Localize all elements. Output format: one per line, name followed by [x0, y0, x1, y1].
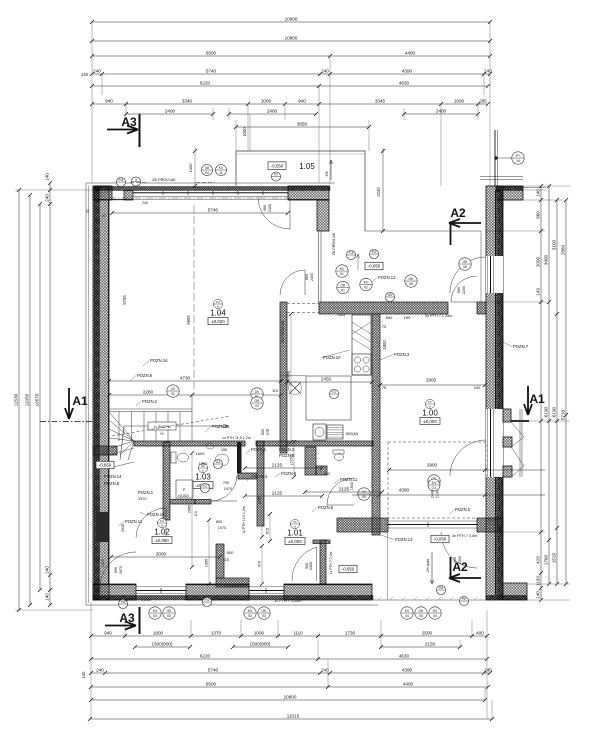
svg-text:POZN.16: POZN.16 [147, 512, 165, 517]
tag circle [459, 258, 471, 270]
section marker A1 right [511, 386, 545, 421]
door arc 1.01 to 1.00 [292, 547, 317, 581]
dim right col1 [536, 184, 543, 602]
svg-text:2500: 2500 [422, 630, 433, 635]
door arc 1.01 entry [327, 478, 354, 505]
dim left inner [45, 173, 52, 607]
svg-text:800: 800 [261, 429, 265, 435]
svg-text:POZN.15: POZN.15 [212, 424, 230, 429]
svg-text:P7: P7 [516, 154, 520, 158]
tag circle [200, 483, 209, 492]
svg-text:4630: 4630 [399, 653, 410, 658]
section marker A2 bottom [449, 557, 481, 582]
svg-text:5740: 5740 [208, 207, 219, 212]
svg-text:03: 03 [262, 614, 266, 618]
svg-text:615: 615 [265, 528, 269, 534]
svg-text:10900: 10900 [285, 16, 298, 21]
tag circle [329, 389, 338, 398]
terrace west edge [387, 532, 389, 600]
svg-text:140: 140 [45, 173, 50, 181]
dim 10800 top [90, 35, 492, 43]
door arc bathroom [211, 475, 237, 501]
svg-text:POZN.1: POZN.1 [138, 490, 154, 495]
hall line y376 [280, 375, 306, 377]
tag circle [336, 265, 348, 277]
svg-text:01: 01 [171, 392, 175, 396]
tag circle [118, 599, 127, 608]
staircase walk line with arrow [120, 424, 228, 460]
svg-text:700: 700 [223, 481, 229, 485]
svg-text:1000: 1000 [261, 98, 272, 103]
porch slope arrow [330, 160, 333, 180]
svg-text:2085: 2085 [187, 505, 191, 513]
svg-text:2125: 2125 [339, 486, 350, 491]
toilet [178, 453, 189, 462]
living south wall west seg [337, 518, 388, 532]
svg-text:05: 05 [409, 282, 413, 286]
svg-text:2240: 2240 [376, 187, 381, 197]
svg-text:P3: P3 [372, 250, 376, 254]
svg-text:75: 75 [382, 325, 386, 329]
svg-text:1730: 1730 [345, 630, 356, 635]
dimension line [379, 641, 462, 649]
window bottom wall middle [249, 590, 284, 592]
roof edge line 1 [480, 176, 523, 178]
svg-text:2300: 2300 [458, 556, 462, 564]
svg-text:1800: 1800 [382, 340, 387, 350]
svg-text:1370: 1370 [211, 630, 222, 635]
svg-text:POZN.8: POZN.8 [104, 481, 120, 486]
svg-text:2280: 2280 [143, 389, 154, 394]
tag circle [385, 292, 394, 301]
svg-text:F2: F2 [332, 390, 336, 394]
svg-text:2125: 2125 [272, 462, 283, 467]
downpipe line and dot [494, 130, 496, 186]
svg-text:3x PTH 7 1,25m: 3x PTH 7 1,25m [274, 599, 301, 603]
exterior wall bottom seg2 [186, 584, 249, 600]
svg-text:1970: 1970 [224, 487, 232, 491]
svg-text:115: 115 [194, 511, 198, 517]
svg-text:2300: 2300 [310, 273, 314, 281]
dim 5740/4390 top [90, 68, 492, 76]
svg-text:02: 02 [364, 286, 368, 290]
dim 6500/4400 top [90, 50, 492, 58]
dim 10900 top [90, 16, 492, 24]
dim 3650 [234, 121, 371, 129]
window bottom wall left [136, 590, 186, 592]
washing machine [313, 424, 326, 440]
svg-text:OK: OK [341, 283, 347, 287]
svg-text:03: 03 [153, 614, 157, 618]
svg-text:1085: 1085 [204, 559, 208, 567]
svg-text:11015: 11015 [287, 713, 300, 718]
pantry box [306, 376, 351, 420]
dim 2280 stairs [107, 389, 283, 397]
level box [365, 262, 383, 270]
thin line east of stub [523, 187, 546, 189]
dim right col4 [561, 198, 568, 586]
svg-text:400: 400 [476, 630, 484, 635]
svg-text:240: 240 [484, 667, 492, 672]
section marker A1 left [40, 388, 93, 422]
svg-text:02: 02 [255, 404, 259, 408]
svg-text:420: 420 [536, 556, 541, 564]
svg-text:2200: 2200 [462, 286, 466, 294]
svg-text:1850: 1850 [199, 461, 209, 466]
svg-text:2400: 2400 [165, 108, 176, 113]
svg-text:KV: KV [153, 609, 158, 613]
svg-text:G3: G3 [216, 460, 221, 464]
svg-text:POZN.7: POZN.7 [513, 344, 529, 349]
svg-text:1000: 1000 [254, 630, 265, 635]
exterior wall right [486, 186, 503, 600]
bay window right wall (y409-477) [486, 409, 503, 477]
svg-text:06: 06 [463, 265, 467, 269]
svg-text:A2: A2 [450, 206, 466, 220]
interior wall piece above partition [313, 540, 330, 544]
svg-text:POZN.14: POZN.14 [104, 474, 122, 479]
room label 1.01 [285, 519, 305, 544]
svg-text:KV: KV [248, 609, 253, 613]
washing machine bathroom [176, 480, 193, 498]
svg-text:1970: 1970 [218, 526, 226, 530]
svg-text:POZN.12: POZN.12 [378, 275, 396, 280]
svg-text:P.8: P.8 [119, 178, 124, 182]
svg-text:500: 500 [227, 550, 234, 555]
svg-text:240: 240 [93, 68, 101, 73]
svg-text:F4: F4 [160, 519, 164, 523]
svg-text:2150: 2150 [425, 641, 436, 646]
interior wall nook vertical [216, 544, 224, 578]
svg-text:3x PTH 7 2,25m: 3x PTH 7 2,25m [124, 598, 151, 602]
svg-text:-0,050: -0,050 [271, 163, 284, 168]
exterior wall stub right wing [496, 186, 523, 200]
svg-text:6500: 6500 [206, 50, 217, 55]
dim 2125 a [243, 462, 324, 470]
svg-text:140: 140 [81, 72, 89, 77]
tag circle [360, 278, 372, 290]
svg-text:143: 143 [536, 288, 541, 296]
dim 10570 left [35, 202, 42, 592]
door arc 1.04 opening [280, 270, 305, 295]
svg-text:240: 240 [321, 68, 329, 73]
svg-text:OK: OK [463, 260, 469, 264]
svg-text:ZV: ZV [171, 387, 176, 391]
svg-text:240: 240 [45, 194, 50, 202]
tag circle [401, 607, 413, 619]
porch 1.05 outline [236, 151, 365, 231]
svg-text:-0,050: -0,050 [434, 537, 447, 542]
small up arrow near P3 [357, 254, 360, 270]
interior wall hall/1.01 step [316, 466, 327, 475]
tag circle [202, 597, 211, 606]
svg-text:115: 115 [272, 389, 278, 393]
interior wall 1.02/1.03 (x163) [163, 442, 170, 520]
wall return SE corner [503, 583, 527, 600]
svg-text:±0,000: ±0,000 [288, 539, 302, 544]
staircase treads [109, 408, 192, 410]
svg-text:0(1160): 0(1160) [178, 494, 189, 498]
tag circle [116, 177, 125, 186]
interior wall 1.01/1.00 partition [320, 540, 326, 584]
svg-text:1x PTH 7 1,0m: 1x PTH 7 1,0m [329, 552, 333, 575]
dim 2450 [285, 376, 374, 384]
svg-text:800: 800 [305, 274, 309, 280]
svg-text:3100: 3100 [552, 239, 557, 250]
dim 3000 [109, 551, 222, 559]
svg-text:1110: 1110 [293, 630, 303, 635]
tag circle [429, 607, 441, 619]
dim 2900 living mid [387, 462, 545, 472]
svg-text:DV: DV [432, 481, 437, 485]
svg-text:4400: 4400 [403, 681, 414, 686]
svg-text:5740: 5740 [206, 68, 217, 73]
svg-text:POZN.11: POZN.11 [340, 477, 358, 482]
insulation strips on outer faces [94, 187, 100, 601]
level box [431, 535, 449, 543]
level box [96, 461, 114, 469]
svg-text:04: 04 [205, 171, 209, 175]
svg-text:1.00: 1.00 [422, 409, 438, 418]
beam dashes over opening x287-319 [287, 303, 319, 305]
svg-text:-0,950: -0,950 [99, 463, 112, 468]
interior wall hall south (y441) [287, 441, 373, 446]
door arc living from hall [451, 276, 477, 302]
svg-text:10800: 10800 [284, 694, 297, 699]
svg-text:01: 01 [340, 272, 344, 276]
svg-text:POZN.5: POZN.5 [455, 507, 471, 512]
interior wall bath east [257, 441, 264, 526]
svg-text:±0,000: ±0,000 [423, 419, 437, 424]
dim right col3 [552, 198, 559, 586]
svg-text:05: 05 [362, 495, 366, 499]
svg-text:-0,050: -0,050 [342, 567, 355, 572]
svg-text:2935: 2935 [121, 524, 125, 532]
svg-text:1000: 1000 [188, 163, 193, 173]
opening right wall door (y256-293) [486, 256, 503, 293]
wall axis dash-dot top [109, 197, 290, 199]
svg-text:OK: OK [409, 277, 415, 281]
svg-text:3340: 3340 [182, 98, 193, 103]
kitchen counter [352, 315, 371, 375]
svg-text:240: 240 [96, 667, 104, 672]
svg-text:ZB PRŮVLAK: ZB PRŮVLAK [152, 177, 176, 182]
svg-text:F2: F2 [203, 484, 207, 488]
lower stair flight treads [109, 448, 134, 455]
svg-text:940: 940 [298, 98, 306, 103]
svg-text:04: 04 [419, 614, 423, 618]
svg-text:140: 140 [81, 671, 86, 679]
dim 5740/4390 bottom [89, 667, 492, 675]
svg-text:2000: 2000 [536, 256, 541, 267]
tag circle [415, 607, 427, 619]
dim 1000 porch [249, 115, 251, 151]
tag circle [428, 475, 440, 487]
svg-text:POZN.11: POZN.11 [125, 519, 143, 524]
svg-text:POZN.13: POZN.13 [395, 537, 413, 542]
level box [339, 565, 357, 573]
svg-text:POZN.9: POZN.9 [281, 471, 297, 476]
svg-text:1555: 1555 [337, 313, 345, 317]
door arc right wall [450, 257, 486, 293]
tag circle [167, 385, 179, 397]
dim 4730 [107, 375, 283, 383]
tag circle [251, 397, 263, 409]
svg-text:3x PTH 7 3,0m: 3x PTH 7 3,0m [452, 534, 477, 538]
svg-text:DV: DV [255, 390, 260, 394]
svg-text:P6: P6 [462, 597, 466, 601]
svg-text:6220: 6220 [200, 80, 211, 85]
svg-text:POZN.6: POZN.6 [137, 373, 153, 378]
porch edge east line [365, 230, 481, 232]
interior wall piece left of stairs [93, 446, 117, 455]
room label 1.04 [208, 299, 228, 324]
svg-text:P2: P2 [274, 172, 278, 176]
svg-text:240: 240 [45, 566, 50, 574]
room label 1.03 [193, 463, 213, 488]
dimension line [110, 207, 290, 215]
door arc terrace right [441, 532, 477, 568]
dashed centerline 1.04 [193, 205, 195, 394]
svg-text:4390: 4390 [399, 487, 410, 492]
dimension line [227, 108, 318, 116]
extension lines bottom [90, 602, 92, 719]
svg-text:5740: 5740 [208, 667, 219, 672]
interior wall nook horizontal [216, 578, 249, 587]
dim 4390 living [352, 487, 545, 497]
svg-text:2400: 2400 [431, 490, 435, 498]
svg-text:-2% spád: -2% spád [426, 559, 430, 573]
svg-text:POZN.8: POZN.8 [279, 453, 295, 458]
tag circle [251, 388, 263, 400]
svg-text:800: 800 [114, 567, 118, 573]
stairs dashed cut line [112, 416, 230, 436]
svg-text:1600: 1600 [196, 451, 206, 456]
svg-text:F2: F2 [293, 520, 297, 524]
tag circle [346, 250, 355, 259]
svg-text:11050: 11050 [25, 393, 30, 406]
dim 2900 living top [378, 377, 487, 387]
svg-text:2900: 2900 [426, 377, 437, 382]
exterior wall bottom seg1 [93, 584, 136, 600]
svg-text:1.03: 1.03 [195, 473, 211, 482]
stairs label box [148, 422, 176, 430]
svg-text:900: 900 [263, 205, 267, 211]
dimension line [231, 641, 290, 649]
living south wall east seg [477, 518, 503, 532]
insulation bottom line [86, 604, 378, 606]
section marker A3 top [107, 114, 140, 147]
insulation outline left/top/bottom [86, 183, 335, 605]
dim right col2 [544, 184, 551, 586]
svg-text:03: 03 [248, 614, 252, 618]
tag circle [213, 459, 222, 468]
extension left bottom [15, 609, 93, 611]
svg-text:150: 150 [221, 448, 227, 452]
dim 2240 porch right [382, 148, 384, 231]
dim 6500/4400 bottom [89, 681, 490, 689]
svg-text:3x PTH 7 1,25m: 3x PTH 7 1,25m [425, 314, 452, 318]
svg-text:900: 900 [453, 557, 457, 563]
svg-text:6955: 6955 [186, 315, 191, 325]
svg-text:POZN.2: POZN.2 [279, 447, 295, 452]
terrace slope arrow [431, 552, 434, 584]
tag circle [271, 172, 280, 181]
svg-text:2%: 2% [325, 171, 329, 176]
window arc bottom-left [100, 552, 136, 588]
svg-text:±0,080: ±0,080 [155, 538, 169, 543]
svg-text:±0,020: ±0,020 [211, 319, 225, 324]
svg-text:POZN.4: POZN.4 [252, 474, 268, 479]
svg-text:6500: 6500 [206, 681, 217, 686]
svg-text:140: 140 [536, 591, 541, 599]
svg-text:1065: 1065 [257, 496, 261, 504]
svg-text:650: 650 [386, 315, 393, 320]
exterior wall top-right of window [288, 186, 329, 200]
svg-text:285: 285 [479, 98, 487, 103]
svg-text:1.02: 1.02 [154, 528, 170, 537]
tag circle [216, 165, 227, 176]
svg-text:(A): (A) [160, 432, 164, 436]
svg-text:1.04: 1.04 [210, 309, 226, 318]
svg-text:5710: 5710 [561, 409, 566, 420]
interior wall kitchen/living (x372) [372, 314, 380, 535]
svg-text:1100: 1100 [536, 576, 541, 586]
level box [268, 162, 286, 170]
dimension line [124, 108, 215, 116]
wall stub at entrance west [317, 200, 329, 231]
dimension line [133, 641, 192, 649]
tag circle [258, 607, 270, 619]
svg-text:11530: 11530 [14, 393, 19, 406]
svg-text:1000: 1000 [242, 127, 247, 137]
radiator [327, 425, 343, 439]
interior wall bath-corridor piece [238, 473, 257, 479]
svg-text:1970: 1970 [119, 566, 123, 574]
tag circle [244, 607, 256, 619]
svg-text:14: 14 [516, 159, 520, 163]
svg-text:3345: 3345 [375, 98, 386, 103]
terrace door glazing (3m) [388, 524, 477, 526]
svg-text:2900: 2900 [427, 462, 438, 467]
dim 6220/4630 top [90, 80, 490, 88]
tag circle [202, 165, 213, 176]
svg-text:240: 240 [142, 201, 148, 205]
svg-text:P8: P8 [439, 586, 443, 590]
svg-text:05: 05 [388, 293, 392, 297]
interior wall piece near right wall [477, 302, 486, 314]
door arc entrance [258, 197, 290, 229]
svg-text:OK: OK [167, 609, 173, 613]
svg-text:1.01: 1.01 [287, 529, 303, 538]
dashed zone rectangle living [388, 442, 486, 518]
svg-text:2050(M): 2050(M) [286, 370, 290, 385]
svg-text:POZN.10: POZN.10 [323, 355, 341, 360]
interior vertical dim chains [290, 314, 292, 442]
svg-text:150: 150 [404, 315, 411, 320]
interior wall 1.04 east (x280) [280, 302, 287, 453]
svg-text:1500(900): 1500(900) [250, 641, 271, 646]
interior wall bath north east run [256, 441, 287, 446]
dim 11530 left [14, 188, 21, 612]
dim 2125 b [243, 490, 324, 498]
svg-text:1x PTH 11,5 1,2m: 1x PTH 11,5 1,2m [222, 436, 251, 440]
interior wall bath south east seg [195, 500, 211, 505]
svg-text:240: 240 [474, 385, 481, 390]
svg-text:4390: 4390 [402, 68, 413, 73]
svg-text:a: a [135, 177, 137, 181]
svg-text:2860: 2860 [561, 244, 566, 255]
